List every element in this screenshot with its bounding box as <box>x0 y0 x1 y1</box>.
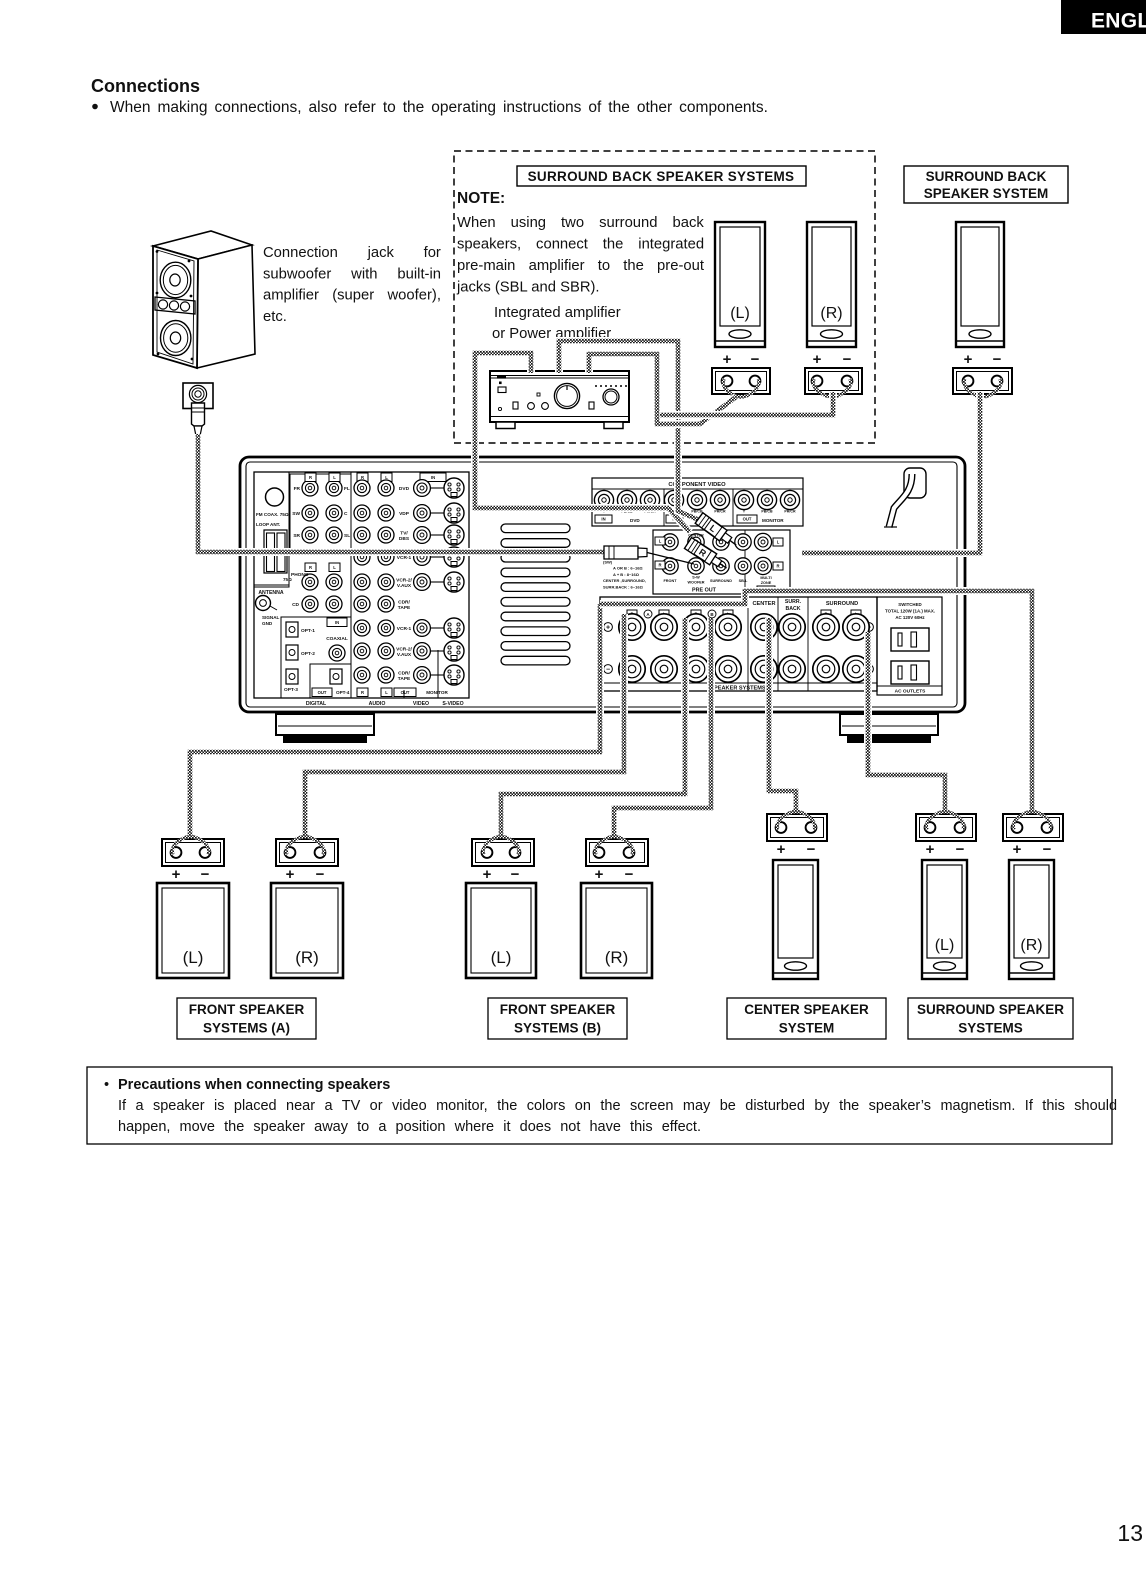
svg-text:TAPE: TAPE <box>398 605 411 611</box>
svg-text:SB-L: SB-L <box>739 579 749 583</box>
svg-text:•: • <box>104 1077 109 1093</box>
svg-text:DVD: DVD <box>399 486 410 492</box>
svg-text:CDR/: CDR/ <box>398 671 410 677</box>
svg-text:(R): (R) <box>605 948 629 967</box>
svg-text:+: + <box>1013 841 1022 858</box>
svg-text:BACK: BACK <box>786 606 801 612</box>
svg-text:A OR B : 6~16Ω: A OR B : 6~16Ω <box>613 566 643 571</box>
svg-text:R: R <box>361 690 364 695</box>
svg-text:+: + <box>606 624 610 631</box>
svg-text:NOTE:: NOTE: <box>457 190 505 207</box>
svg-text:OUT: OUT <box>318 690 327 695</box>
svg-text:AC 120V 60Hz: AC 120V 60Hz <box>895 615 925 620</box>
svg-text:PHONO: PHONO <box>291 572 309 578</box>
svg-text:+: + <box>926 841 935 858</box>
svg-text:C: C <box>344 511 348 517</box>
svg-text:SW: SW <box>292 511 300 517</box>
svg-text:CENTER ,SURROUND,: CENTER ,SURROUND, <box>603 578 646 583</box>
svg-text:Connection jack for: Connection jack for <box>263 245 441 261</box>
svg-text:VDP: VDP <box>399 511 410 517</box>
svg-text:L: L <box>333 565 336 570</box>
svg-text:SURR.BACK : 6~16Ω: SURR.BACK : 6~16Ω <box>603 585 644 590</box>
svg-text:+: + <box>286 866 295 883</box>
svg-text:CDR/: CDR/ <box>398 600 410 606</box>
svg-text:+: + <box>172 866 181 883</box>
svg-text:L: L <box>777 540 780 545</box>
svg-text:speakers, connect the integrat: speakers, connect the integrated <box>457 237 704 253</box>
svg-text:WOOFER: WOOFER <box>687 581 704 585</box>
svg-text:−: − <box>511 866 520 883</box>
svg-text:FRONT: FRONT <box>663 579 677 583</box>
svg-text:VCR-2/: VCR-2/ <box>396 647 412 653</box>
svg-text:FR: FR <box>294 486 301 492</box>
svg-text:SYSTEMS (A): SYSTEMS (A) <box>203 1021 290 1036</box>
svg-text:PR/CR: PR/CR <box>784 510 796 514</box>
svg-text:MULTI: MULTI <box>760 576 771 580</box>
svg-text:(SW): (SW) <box>603 559 613 564</box>
svg-text:MONITOR: MONITOR <box>762 518 784 523</box>
svg-text:ZONE: ZONE <box>761 581 772 585</box>
svg-text:SIGNAL: SIGNAL <box>262 615 280 620</box>
svg-text:−: − <box>993 351 1002 368</box>
svg-text:VCR-2/: VCR-2/ <box>396 578 412 584</box>
svg-text:13: 13 <box>1117 1520 1143 1546</box>
svg-text:MONITOR: MONITOR <box>426 690 448 695</box>
svg-text:−: − <box>625 866 634 883</box>
svg-text:SURROUND: SURROUND <box>826 601 858 607</box>
svg-text:(R): (R) <box>295 948 319 967</box>
svg-text:(L): (L) <box>183 948 204 967</box>
svg-text:R: R <box>776 564 779 569</box>
svg-text:OPT-1: OPT-1 <box>301 628 315 634</box>
svg-text:+: + <box>777 841 786 858</box>
svg-text:(R): (R) <box>820 305 842 322</box>
svg-text:R: R <box>309 475 312 480</box>
svg-text:LOOP ANT.: LOOP ANT. <box>256 522 280 527</box>
svg-text:−: − <box>606 666 610 673</box>
svg-text:R: R <box>361 475 364 480</box>
svg-text:subwoofer with built-in: subwoofer with built-in <box>263 266 441 282</box>
svg-text:SYSTEMS (B): SYSTEMS (B) <box>514 1021 601 1036</box>
svg-text:−: − <box>807 841 816 858</box>
svg-text:+: + <box>964 351 973 368</box>
svg-text:(L): (L) <box>935 937 955 954</box>
svg-text:DBS: DBS <box>399 536 410 542</box>
svg-text:(R): (R) <box>1020 937 1042 954</box>
svg-text:−: − <box>751 351 760 368</box>
svg-text:FL: FL <box>344 486 350 492</box>
svg-text:(L): (L) <box>491 948 512 967</box>
svg-text:etc.: etc. <box>263 309 287 325</box>
svg-text:PB/CB: PB/CB <box>691 510 703 514</box>
svg-text:FM COAX. 75Ω: FM COAX. 75Ω <box>256 512 289 517</box>
svg-text:S-VIDEO: S-VIDEO <box>442 701 463 707</box>
svg-text:(L): (L) <box>730 305 750 322</box>
svg-text:L: L <box>385 475 388 480</box>
svg-text:PB/CB: PB/CB <box>761 510 773 514</box>
svg-text:PRE OUT: PRE OUT <box>692 588 717 594</box>
svg-text:AUDIO: AUDIO <box>369 701 386 707</box>
svg-text:IN: IN <box>431 475 435 480</box>
svg-text:V.AUX: V.AUX <box>397 583 412 589</box>
svg-text:CENTER: CENTER <box>753 601 776 607</box>
svg-text:L: L <box>385 690 388 695</box>
svg-text:When using two surround back: When using two surround back <box>457 215 704 231</box>
svg-text:+: + <box>483 866 492 883</box>
svg-text:VCR-1: VCR-1 <box>397 626 412 632</box>
svg-text:AC OUTLETS: AC OUTLETS <box>895 689 926 695</box>
svg-text:L: L <box>333 475 336 480</box>
svg-text:SURROUND: SURROUND <box>710 579 732 583</box>
svg-text:GND: GND <box>262 621 273 626</box>
svg-text:ENGLISH: ENGLISH <box>1091 10 1146 33</box>
svg-text:SURROUND SPEAKER: SURROUND SPEAKER <box>917 1002 1064 1017</box>
svg-text:SR: SR <box>293 533 300 539</box>
svg-text:happen, move the speaker away: happen, move the speaker away to a posit… <box>118 1119 701 1135</box>
svg-text:SL: SL <box>344 533 350 539</box>
svg-text:OUT: OUT <box>401 690 410 695</box>
svg-text:jacks (SBL and SBR).: jacks (SBL and SBR). <box>456 280 600 296</box>
svg-text:CENTER SPEAKER: CENTER SPEAKER <box>744 1002 869 1017</box>
svg-text:R: R <box>309 565 312 570</box>
svg-text:OPT-4: OPT-4 <box>336 690 350 695</box>
svg-text:amplifier (super woofer),: amplifier (super woofer), <box>263 288 441 304</box>
svg-text:+: + <box>723 351 732 368</box>
svg-text:TOTAL 120W (1A.) MAX.: TOTAL 120W (1A.) MAX. <box>885 609 935 614</box>
svg-text:CENTER: CENTER <box>688 534 704 538</box>
svg-text:OPT-3: OPT-3 <box>284 687 298 693</box>
svg-text:When making connections, also: When making connections, also refer to t… <box>110 99 768 116</box>
svg-text:SURR.: SURR. <box>785 599 802 605</box>
svg-text:If a speaker is placed near a: If a speaker is placed near a TV or vide… <box>118 1098 1117 1114</box>
svg-text:−: − <box>201 866 210 883</box>
svg-text:VIDEO: VIDEO <box>413 701 429 707</box>
svg-text:TV/: TV/ <box>400 531 408 537</box>
svg-text:pre-main amplifier to the pre-: pre-main amplifier to the pre-out <box>457 258 704 274</box>
svg-text:FRONT SPEAKER: FRONT SPEAKER <box>189 1002 305 1017</box>
svg-text:−: − <box>1043 841 1052 858</box>
svg-text:−: − <box>843 351 852 368</box>
svg-text:Connections: Connections <box>91 76 200 96</box>
svg-text:IN: IN <box>335 620 339 625</box>
svg-text:+: + <box>595 866 604 883</box>
svg-text:L: L <box>659 539 662 544</box>
svg-text:TAPE: TAPE <box>398 676 411 682</box>
svg-text:OPT-2: OPT-2 <box>301 651 315 657</box>
svg-text:OUT: OUT <box>743 517 752 522</box>
svg-text:Precautions when connecting sp: Precautions when connecting speakers <box>118 1077 390 1093</box>
svg-text:V.AUX: V.AUX <box>397 652 412 658</box>
svg-text:SPEAKER SYSTEM: SPEAKER SYSTEM <box>924 186 1049 201</box>
svg-text:SWITCHED: SWITCHED <box>898 602 921 607</box>
svg-text:SPEAKER SYSTEMS: SPEAKER SYSTEMS <box>710 686 766 692</box>
svg-text:R: R <box>658 563 661 568</box>
svg-text:SYSTEMS: SYSTEMS <box>958 1021 1023 1036</box>
svg-text:S-W: S-W <box>692 576 700 580</box>
svg-text:SURROUND BACK SPEAKER SYSTEMS: SURROUND BACK SPEAKER SYSTEMS <box>528 169 795 184</box>
svg-text:Integrated amplifier: Integrated amplifier <box>494 305 621 321</box>
svg-text:IN: IN <box>601 517 605 522</box>
svg-text:A + B : 8~16Ω: A + B : 8~16Ω <box>613 572 640 577</box>
svg-text:SURROUND BACK: SURROUND BACK <box>926 169 1047 184</box>
svg-text:SYSTEM: SYSTEM <box>779 1021 835 1036</box>
svg-text:CD: CD <box>292 602 299 608</box>
svg-text:−: − <box>956 841 965 858</box>
svg-text:PR/CR: PR/CR <box>714 510 726 514</box>
svg-text:FRONT SPEAKER: FRONT SPEAKER <box>500 1002 616 1017</box>
svg-text:+: + <box>813 351 822 368</box>
svg-text:−: − <box>316 866 325 883</box>
svg-text:DVD: DVD <box>630 518 640 523</box>
svg-text:DIGITAL: DIGITAL <box>306 701 327 707</box>
svg-text:COAXIAL: COAXIAL <box>326 636 348 642</box>
